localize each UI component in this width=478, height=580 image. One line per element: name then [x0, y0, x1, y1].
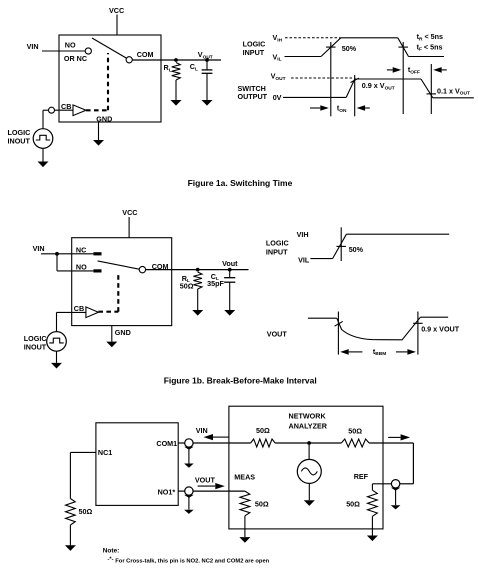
svg-text:NO: NO — [65, 41, 76, 50]
svg-text:LOGIC: LOGIC — [266, 239, 289, 248]
svg-text:50Ω: 50Ω — [79, 507, 93, 516]
svg-text:INOUT: INOUT — [8, 137, 31, 146]
svg-text:50%: 50% — [349, 245, 364, 254]
svg-text:50Ω: 50Ω — [348, 427, 362, 436]
svg-text:OUTPUT: OUTPUT — [238, 92, 268, 101]
svg-text:VIH: VIH — [297, 230, 309, 239]
svg-text:50%: 50% — [342, 44, 357, 53]
svg-text:50Ω: 50Ω — [180, 281, 194, 290]
svg-text:VIN: VIN — [196, 426, 208, 435]
svg-text:CB: CB — [61, 102, 71, 111]
svg-text:VOUT: VOUT — [195, 476, 216, 485]
svg-text:MEAS: MEAS — [234, 473, 255, 482]
svg-text:CB: CB — [74, 304, 84, 313]
svg-text:COM: COM — [137, 50, 154, 59]
svg-text:-*- For Cross-talk, this pin i: -*- For Cross-talk, this pin is NO2. NC2… — [108, 557, 270, 565]
svg-text:50Ω: 50Ω — [255, 500, 269, 509]
svg-text:VIL: VIL — [298, 255, 310, 264]
svg-text:NO: NO — [76, 262, 87, 271]
svg-text:50Ω: 50Ω — [346, 500, 360, 509]
svg-text:COM1: COM1 — [156, 439, 177, 448]
svg-text:0.9 x VOUT: 0.9 x VOUT — [421, 324, 460, 333]
svg-text:NO1*: NO1* — [158, 487, 176, 496]
svg-text:OR NC: OR NC — [64, 54, 87, 63]
svg-text:Figure 1a. Switching Time: Figure 1a. Switching Time — [188, 178, 293, 188]
svg-text:VOUT: VOUT — [267, 329, 288, 338]
svg-text:GND: GND — [115, 328, 131, 337]
svg-text:VCC: VCC — [109, 6, 124, 15]
svg-text:50Ω: 50Ω — [256, 426, 270, 435]
svg-text:35pF: 35pF — [207, 279, 224, 288]
svg-text:NETWORK: NETWORK — [289, 411, 327, 420]
svg-text:VCC: VCC — [122, 208, 137, 217]
svg-text:INOUT: INOUT — [24, 343, 47, 352]
svg-text:GND: GND — [96, 114, 112, 123]
svg-text:ANALYZER: ANALYZER — [289, 422, 328, 431]
svg-text:0V: 0V — [273, 93, 282, 102]
svg-text:INPUT: INPUT — [243, 48, 265, 57]
svg-text:INPUT: INPUT — [266, 247, 288, 256]
svg-text:REF: REF — [354, 472, 369, 481]
svg-text:VIN: VIN — [33, 244, 45, 253]
svg-text:NC: NC — [76, 245, 86, 254]
svg-text:Vout: Vout — [222, 259, 238, 268]
svg-text:NC1: NC1 — [98, 448, 112, 457]
svg-text:Figure 1b. Break-Before-Make I: Figure 1b. Break-Before-Make Interval — [164, 376, 317, 386]
svg-text:VIN: VIN — [27, 42, 39, 51]
svg-text:Note:: Note: — [103, 548, 120, 555]
